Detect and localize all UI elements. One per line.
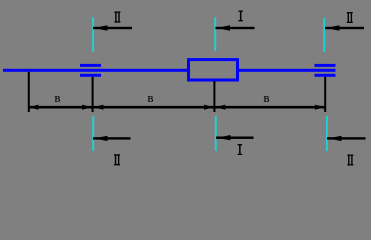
section line I lower (middle cyan) bbox=[215, 116, 217, 151]
section arrow I upper-middle: shaft bbox=[216, 27, 255, 29]
section arrow II lower-left: head bbox=[94, 136, 108, 141]
section line II upper (right cyan) bbox=[323, 18, 325, 52]
section line II lower (right cyan) bbox=[326, 116, 328, 151]
section arrow I lower-middle: shaft bbox=[216, 137, 254, 139]
extension line at left lead end bbox=[28, 72, 30, 112]
extension line below capacitor C1 bbox=[92, 77, 94, 112]
dimension arrow at x325 pointing right bbox=[315, 105, 325, 110]
section arrow I upper-middle: head bbox=[217, 25, 231, 30]
label II lower-left bbox=[114, 154, 120, 165]
dimension arrow at x215 pointing left bbox=[215, 105, 225, 110]
extension line below capacitor C2 bbox=[324, 77, 326, 112]
dimension arrow at x214 pointing right bbox=[204, 105, 214, 110]
extension line below resistor R bbox=[213, 81, 215, 112]
section arrow II lower-right: head bbox=[328, 136, 342, 141]
dimension arrow at x93 pointing left bbox=[93, 105, 103, 110]
label II upper-left bbox=[114, 12, 120, 23]
wire right segment (blue lead) bbox=[239, 69, 336, 72]
svg-text:в: в bbox=[263, 90, 269, 105]
capacitor C2 bottom plate (right symbol) bbox=[315, 74, 336, 77]
section line II lower (left cyan) bbox=[92, 116, 94, 151]
section arrow II lower-right: shaft bbox=[327, 137, 366, 139]
section line I upper (middle cyan) bbox=[214, 18, 216, 52]
label II upper-right bbox=[347, 12, 353, 23]
section arrow II lower-left: shaft bbox=[93, 137, 131, 139]
dimension arrow at x92 pointing right bbox=[82, 105, 92, 110]
wire left segment (blue lead) bbox=[3, 69, 187, 72]
label I lower-middle bbox=[238, 144, 243, 155]
section line II upper (left cyan) bbox=[92, 17, 94, 52]
resistor R body bbox=[189, 60, 238, 80]
dimension arrow at x28 pointing left bbox=[28, 105, 38, 110]
section arrow II upper-left: head bbox=[94, 25, 108, 30]
section arrow II upper-left: shaft bbox=[93, 27, 132, 29]
svg-text:в: в bbox=[54, 90, 60, 105]
capacitor C1 top plate (left symbol) bbox=[80, 64, 101, 67]
capacitor C1 bottom plate (left symbol) bbox=[80, 74, 101, 77]
label I upper-middle bbox=[238, 11, 243, 22]
section arrow I lower-middle: head bbox=[217, 135, 231, 140]
label II lower-right bbox=[347, 155, 353, 166]
dimension line bbox=[28, 106, 326, 109]
section arrow II upper-right: head bbox=[326, 25, 340, 30]
svg-text:в: в bbox=[147, 90, 153, 105]
capacitor C2 top plate (right symbol) bbox=[315, 64, 336, 67]
section arrow II upper-right: shaft bbox=[325, 27, 364, 29]
